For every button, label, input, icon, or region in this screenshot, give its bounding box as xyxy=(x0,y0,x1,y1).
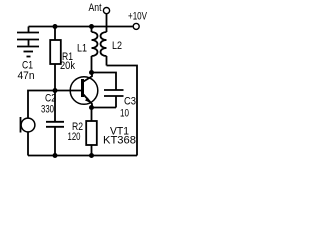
capacitor C3 xyxy=(104,90,124,108)
node: rail-R1 junction xyxy=(53,24,58,29)
node: C2-ground junction xyxy=(53,153,58,158)
wire +V top rail xyxy=(29,26,133,28)
wire L2 bottom to right return xyxy=(107,66,138,156)
svg-text:20k: 20k xyxy=(60,60,75,72)
svg-text:L2: L2 xyxy=(112,40,122,52)
resistor R1 xyxy=(50,27,61,91)
node: collector junction xyxy=(89,70,94,75)
svg-text:330: 330 xyxy=(41,104,54,116)
svg-text:KT368: KT368 xyxy=(103,135,136,147)
ground rail (bottom wire) xyxy=(28,155,137,157)
node: base junction xyxy=(53,88,58,93)
capacitor C2 xyxy=(46,91,64,156)
wire Ant to L2 (crosses rail, no junction) xyxy=(106,14,108,32)
microphone BM1 xyxy=(21,117,35,156)
wire base xyxy=(55,90,81,92)
svg-text:L1: L1 xyxy=(77,43,87,55)
inductor L1 xyxy=(92,27,98,73)
ground xyxy=(17,47,39,57)
node: R2-ground junction xyxy=(89,153,94,158)
transistor VT1 xyxy=(70,73,98,108)
node: emitter junction xyxy=(89,105,94,110)
svg-text:+10V: +10V xyxy=(128,11,147,23)
wire emitter to C3 xyxy=(92,107,117,109)
wire collector to C3 xyxy=(92,73,117,91)
svg-text:10: 10 xyxy=(120,108,129,120)
svg-text:120: 120 xyxy=(68,131,81,143)
antenna terminal Ant xyxy=(103,8,109,14)
svg-text:47n: 47n xyxy=(18,70,35,82)
svg-text:C3: C3 xyxy=(124,96,136,108)
svg-text:Ant: Ant xyxy=(89,2,102,14)
terminal +10V xyxy=(133,23,139,29)
wire base node to microphone xyxy=(28,91,55,119)
resistor R2 xyxy=(86,108,97,156)
capacitor C1 xyxy=(17,27,39,46)
node: rail-L1 junction xyxy=(89,24,94,29)
inductor L2 xyxy=(101,32,107,66)
